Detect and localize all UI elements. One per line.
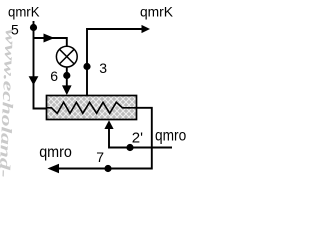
svg-text:2': 2' bbox=[132, 130, 143, 147]
wire: branch from node 5 to valve inlet bbox=[34, 34, 67, 47]
svg-text:7: 7 bbox=[96, 149, 104, 165]
svg-text:qmro: qmro bbox=[155, 128, 186, 145]
svg-text:3: 3 bbox=[99, 60, 107, 76]
node 3 bbox=[83, 63, 90, 70]
svg-text:5: 5 bbox=[11, 21, 19, 37]
wire: heat exchanger right outlet down and left through node 7 to qmro outlet bbox=[48, 108, 152, 174]
wire: qmro return from right through node 2' up into heat exchanger bottom bbox=[104, 120, 172, 147]
svg-text:qmrK: qmrK bbox=[8, 4, 40, 19]
svg-text:qmro: qmro bbox=[39, 144, 72, 161]
node 7 bbox=[104, 165, 111, 172]
svg-text:qmrK: qmrK bbox=[140, 5, 173, 20]
wire: left supply from qmrK down through node 5 into heat exchanger left inlet bbox=[29, 21, 47, 109]
node 6 bbox=[63, 72, 70, 79]
node 2' bbox=[126, 144, 133, 151]
svg-text:6: 6 bbox=[50, 68, 58, 84]
svg-text:www.echoland-: www.echoland- bbox=[0, 28, 18, 178]
wire: valve outlet down through node 6 into heat exchanger top bbox=[62, 67, 72, 95]
node 5 bbox=[30, 24, 37, 31]
heat exchanger (hatched box with heating coil) bbox=[47, 96, 137, 120]
wire: heat exchanger top outlet up through node 3 and right to qmrK return bbox=[87, 25, 150, 96]
valve (circle with X) bbox=[56, 46, 77, 67]
